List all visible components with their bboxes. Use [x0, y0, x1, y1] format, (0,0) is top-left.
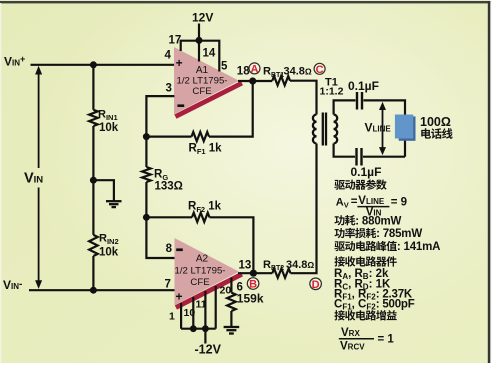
- svg-text:5: 5: [221, 60, 228, 72]
- op-amp A2 inner labels: [174, 248, 225, 303]
- resistor RIN1: [89, 110, 98, 126]
- node B: [247, 278, 259, 291]
- node VIN measurement arrow: [35, 66, 42, 289]
- junction A1 output / RF1: [249, 77, 256, 84]
- svg-text:4: 4: [165, 50, 172, 62]
- svg-text:14: 14: [203, 48, 216, 60]
- junction RG bottom / RF2: [143, 214, 150, 221]
- wire RF1 right lead up to A1 output: [209, 81, 253, 137]
- wire A2 pin 8 loop: [146, 217, 174, 258]
- wire VIN+ input to A1 pin 4: [31, 64, 175, 66]
- junction VIN+ / RIN1: [90, 61, 97, 68]
- svg-text:RF1 1k: RF1 1k: [189, 143, 223, 157]
- wire 159k to ground: [230, 311, 232, 327]
- resistor RBT1: [272, 76, 290, 85]
- svg-text:CFE: CFE: [190, 277, 209, 288]
- svg-text:10k: 10k: [99, 247, 119, 259]
- svg-text:1/2 LT1795-: 1/2 LT1795-: [174, 266, 225, 277]
- svg-text:D: D: [312, 279, 320, 291]
- wire VIN- input to A2 pin 7: [29, 289, 175, 291]
- svg-text:A: A: [251, 64, 259, 76]
- svg-text:=: =: [351, 196, 358, 208]
- svg-text:13: 13: [239, 259, 252, 271]
- resistor RG: [142, 167, 151, 182]
- wire top cap to load: [364, 100, 406, 156]
- wire A1 pin 3 feedback loop: [146, 96, 174, 137]
- svg-text:12V: 12V: [192, 11, 213, 25]
- op-amp A1 body: [174, 47, 239, 114]
- svg-text:-12V: -12V: [195, 343, 222, 357]
- svg-text:= 9: = 9: [391, 197, 407, 209]
- svg-text:+: +: [176, 56, 183, 70]
- svg-text:+: +: [176, 290, 183, 304]
- note peak current 141mA: [334, 241, 345, 251]
- wire RF2 left lead: [146, 216, 192, 218]
- svg-text:34.8Ω: 34.8Ω: [284, 66, 312, 78]
- svg-text:RF2 1k: RF2 1k: [188, 201, 222, 215]
- wire left rail lower (RIN2 to VIN-): [92, 256, 94, 290]
- resistor RBT2: [272, 269, 290, 278]
- load 100ohm phone line box: [395, 115, 416, 141]
- ground (input bias): [106, 201, 122, 207]
- svg-text:3: 3: [166, 83, 172, 95]
- capacitor 0.1uF top: [357, 92, 362, 110]
- wire left rail upper (VIN+ to RIN1): [92, 65, 94, 110]
- resistor RF2: [192, 213, 210, 222]
- transformer T1 core: [323, 113, 326, 146]
- transformer T1 primary winding: [313, 115, 317, 144]
- svg-text:133Ω: 133Ω: [155, 181, 183, 193]
- wire left rail middle (RIN1 to RIN2): [92, 126, 94, 235]
- junction 12V bracket: [196, 37, 203, 44]
- wire bottom cap to load: [363, 156, 405, 158]
- note receiver gain formula: [339, 327, 395, 352]
- op-amp A2 body: [175, 238, 240, 305]
- svg-text:VRCV: VRCV: [340, 340, 365, 352]
- svg-text:8: 8: [166, 243, 173, 255]
- wire RF1 left lead: [146, 136, 191, 138]
- junction mid rail / ground tap: [90, 177, 97, 184]
- svg-text:VRX: VRX: [341, 327, 360, 339]
- note gain formula Av: [336, 195, 407, 218]
- junction bus pin10: [190, 325, 197, 332]
- svg-text:A2: A2: [196, 254, 209, 265]
- load label phone line: [421, 128, 431, 138]
- svg-text:A1: A1: [196, 65, 209, 76]
- svg-text:0.1µF: 0.1µF: [348, 79, 379, 93]
- resistor RF1: [192, 132, 210, 141]
- op-amp A1 inner labels: [176, 56, 228, 107]
- svg-text:100Ω: 100Ω: [420, 115, 451, 129]
- wire secondary top to line: [334, 100, 356, 114]
- svg-text:B: B: [249, 279, 257, 291]
- svg-text:18: 18: [237, 65, 250, 77]
- svg-text:159k: 159k: [237, 292, 264, 306]
- wire RBT1 to transformer primary top: [290, 81, 317, 115]
- junction RF1 / RG top: [143, 133, 150, 140]
- wire secondary bottom to line: [334, 144, 355, 157]
- wire pin 6 stub: [230, 278, 232, 293]
- svg-text:20: 20: [220, 285, 232, 297]
- resistor RIN2: [89, 235, 98, 256]
- op-amp A2 bevel edge: [176, 274, 242, 307]
- wire A2 pin 20 stub: [215, 286, 217, 329]
- wire RF2 right lead down to A2 output: [210, 217, 254, 273]
- wire RBT2 to transformer primary bottom: [291, 144, 317, 274]
- wire supply bracket: [181, 41, 220, 72]
- wire RG bottom lead: [145, 182, 147, 217]
- svg-text:17: 17: [169, 35, 182, 47]
- note dissipation 785mW: [334, 228, 344, 238]
- svg-text:: 880mW: : 880mW: [355, 215, 401, 227]
- wire A1 output: [238, 80, 272, 82]
- svg-text:1/2 LT1795-: 1/2 LT1795-: [176, 76, 227, 87]
- wire A2 pin 10 stub: [192, 297, 194, 329]
- node A: [249, 63, 260, 76]
- wire ground stub: [93, 180, 114, 201]
- wire A2 pin 11 stub: [204, 291, 206, 329]
- resistor 159k: [227, 293, 236, 311]
- junction VIN- / RIN2: [90, 287, 97, 294]
- junction A2 output / RF2: [250, 270, 257, 277]
- svg-text:1: 1: [169, 311, 175, 323]
- svg-text:7: 7: [165, 279, 171, 291]
- svg-text:: 785mW: : 785mW: [376, 228, 422, 240]
- svg-text:: 141mA: : 141mA: [397, 241, 440, 253]
- svg-text:1:1.2: 1:1.2: [320, 86, 344, 98]
- svg-text:= 1: = 1: [378, 334, 395, 346]
- note receiver gain title: [334, 310, 344, 320]
- svg-text:34.8Ω: 34.8Ω: [286, 259, 314, 271]
- wire -12V bus: [181, 328, 216, 330]
- wire -12V feed: [204, 329, 206, 344]
- wire A2 output: [238, 272, 272, 274]
- node D: [310, 278, 322, 291]
- junction bus pin11: [202, 325, 209, 332]
- node VLINE arrow: [379, 102, 386, 156]
- svg-text:0.1µF: 0.1µF: [351, 165, 382, 179]
- transformer T1 secondary winding: [334, 115, 338, 144]
- svg-text:C: C: [316, 64, 324, 76]
- wire A2 pin 1 stub: [180, 303, 182, 329]
- wire RG top lead: [145, 137, 147, 167]
- node C: [314, 63, 325, 76]
- svg-text:CFE: CFE: [192, 86, 211, 97]
- note title driver parameters: [334, 180, 345, 190]
- svg-text:10k: 10k: [99, 122, 119, 134]
- wire 12V feed: [198, 24, 200, 62]
- op-amp A1 bevel edge: [175, 83, 242, 117]
- ground (159k): [224, 327, 240, 334]
- capacitor 0.1uF bottom: [357, 148, 362, 166]
- svg-text:VLINE: VLINE: [358, 195, 385, 207]
- note receiver components title: [334, 256, 344, 266]
- note power 880mW: [334, 215, 344, 225]
